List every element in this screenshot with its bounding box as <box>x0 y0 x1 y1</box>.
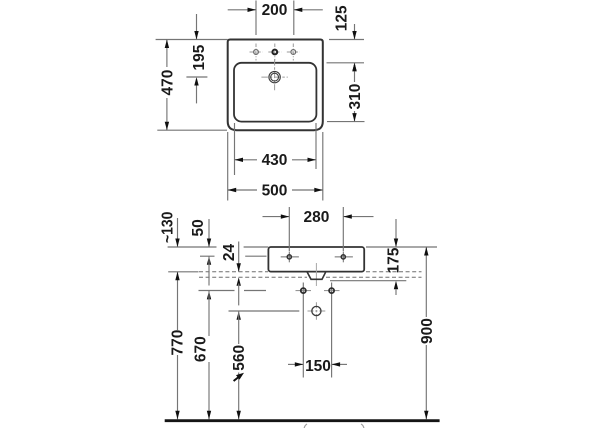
dimension 50 arrow down <box>207 239 211 248</box>
dimension 195 top line <box>196 14 198 40</box>
dimension 175 arrow up <box>394 281 398 290</box>
dimension 470 line upper <box>166 40 168 68</box>
direction arrow (north-east) <box>234 376 241 382</box>
dimension 175 line upper <box>395 219 397 247</box>
dimension 770 line lower <box>177 355 179 419</box>
left faucet hole <box>254 50 259 55</box>
bowl top edge extension line (right) <box>327 62 365 64</box>
dimension 280 arrow left <box>281 214 290 218</box>
washbasin body (front view) <box>268 247 364 272</box>
floor line <box>165 419 440 422</box>
svg-text:900: 900 <box>419 318 436 344</box>
dimension ~130 line <box>177 218 179 247</box>
dimension 900 line lower <box>425 345 427 419</box>
dimension 670 line lower <box>208 362 210 419</box>
dimension 900 line upper <box>425 247 427 317</box>
svg-text:~130: ~130 <box>160 212 177 244</box>
dimension 500 line right <box>292 189 323 191</box>
countertop top dashed line left <box>199 271 268 273</box>
dimension 560 line upper <box>238 284 240 306</box>
dimension 125 arrow down <box>352 31 356 40</box>
center faucet hole <box>272 50 277 55</box>
dimension 500 arrow right <box>314 188 323 192</box>
dimension 280 line right <box>343 216 373 218</box>
svg-text:175: 175 <box>385 247 402 273</box>
dimension 150 line right <box>332 363 347 365</box>
countertop level reference line (left) <box>168 271 198 273</box>
dimension 150 line left <box>288 363 303 365</box>
basin top edge extension line (left) <box>156 39 228 41</box>
dimension 150 extension line right / wall hole right centreline <box>331 283 333 378</box>
dimension 500 arrow left <box>228 188 237 192</box>
wall fixing hole right crosshair <box>324 290 340 292</box>
svg-text:560: 560 <box>231 345 248 371</box>
dimension 430 arrow left <box>235 158 244 162</box>
fixing hole right crosshair (front view) <box>335 252 353 263</box>
dimension 50 arrow up <box>207 256 211 265</box>
right faucet hole crosshair <box>287 44 300 61</box>
fixing hole right (front view) <box>341 255 345 259</box>
dimension 280 extension line left <box>288 207 290 251</box>
countertop bottom dashed line left <box>199 276 307 278</box>
svg-text:430: 430 <box>262 152 288 169</box>
dimension 175 arrow down <box>394 239 398 248</box>
svg-text:195: 195 <box>191 44 208 70</box>
dimension 125 line <box>354 24 356 40</box>
dimension 195 lower line <box>196 86 198 104</box>
dimension 125 arrow up <box>352 63 356 72</box>
drain inner circle (top view) <box>271 73 279 81</box>
dimension ~130 arrow down <box>175 239 179 248</box>
dimension 430 extension line right <box>315 123 317 169</box>
svg-text:670: 670 <box>192 336 209 362</box>
dimension 24 arrow down <box>237 263 241 272</box>
dimension 195 arrow down <box>194 31 198 40</box>
dimension 280 extension line right <box>342 207 344 251</box>
wall fixing hole left crosshair <box>296 290 312 292</box>
dimension 175 lower line <box>395 289 397 295</box>
dimension 150 arrow right <box>332 362 341 366</box>
svg-text:150: 150 <box>305 358 331 375</box>
drain crosshair (top view) <box>261 59 287 90</box>
dimension 430 arrow right <box>308 158 317 162</box>
rim extension line right (front view) <box>366 246 437 248</box>
right faucet hole <box>291 50 296 55</box>
drain centre line through trapezoid <box>315 263 317 286</box>
cropped text fragment left below floor <box>304 424 307 428</box>
dimension 770 arrow up <box>175 272 179 281</box>
drain pipe circle <box>312 306 321 315</box>
wall hole level reference line (left) <box>199 290 235 292</box>
dimension 50 line <box>208 219 210 247</box>
drain pipe level reference line (left) <box>229 310 300 312</box>
dimension 195 arrow up <box>194 77 198 86</box>
drain centre reference tick <box>186 76 207 78</box>
dimension 200 line left <box>228 9 256 11</box>
inner bowl outline (top view) <box>234 63 316 122</box>
dimension 150 arrow left <box>295 362 304 366</box>
wall fixing hole left <box>301 288 306 293</box>
dimension 200 arrow right <box>294 8 303 12</box>
dimension 670 arrow down <box>207 411 211 420</box>
svg-text:24: 24 <box>221 244 238 262</box>
dimension 500 extension line left <box>227 132 229 201</box>
svg-text:770: 770 <box>170 330 187 356</box>
fixing-hole level reference line (left) <box>200 255 215 257</box>
dimension 280 arrow right <box>343 214 352 218</box>
dimension 310 line lower <box>354 111 356 122</box>
dimension 470 arrow down <box>165 122 169 131</box>
dimension 24 line <box>238 242 240 272</box>
dimension 310 arrow down <box>352 113 356 122</box>
dimension 310 arrow up <box>352 63 356 72</box>
cropped text fragment right below floor <box>361 424 364 428</box>
svg-text:470: 470 <box>159 70 176 96</box>
dimension 670 line upper <box>208 256 210 285</box>
dimension 560 line lower <box>238 373 240 420</box>
dimension 770 arrow down <box>175 411 179 420</box>
dimension 200 extension line left <box>255 1 257 36</box>
countertop bottom dashed line right <box>326 276 422 278</box>
bowl bottom edge extension line (right) <box>327 121 365 123</box>
dimension 670 arrow up at wall holes <box>207 291 211 300</box>
center faucet hole crosshair <box>268 44 281 61</box>
dimension 430 extension line left <box>234 123 236 175</box>
dimension 560 arrow down <box>237 411 241 420</box>
svg-text:200: 200 <box>262 2 288 19</box>
drain outer circle (top view) <box>269 71 280 82</box>
dimension 24 arrow up <box>237 277 241 286</box>
dimension 900 arrow up <box>424 247 428 256</box>
dimension 200 extension line right <box>293 1 295 36</box>
dimension 200 arrow left <box>248 8 257 12</box>
dimension 200 line right <box>294 9 323 11</box>
svg-text:125: 125 <box>334 5 351 31</box>
svg-text:280: 280 <box>303 209 329 226</box>
drain pipe crosshair <box>308 302 326 320</box>
dimension 430 line right <box>292 159 316 161</box>
dimension 280 line left <box>263 216 290 218</box>
drain trap (trapezoid) <box>307 272 326 280</box>
left faucet hole crosshair <box>250 44 263 61</box>
svg-text:50: 50 <box>190 219 207 236</box>
svg-text:500: 500 <box>262 182 288 199</box>
dimension 430 line left <box>235 159 258 161</box>
dimension 500 line left <box>228 189 257 191</box>
svg-text:310: 310 <box>347 84 364 110</box>
dimension 900 arrow down <box>424 411 428 420</box>
drain outlet reference line (right) <box>330 280 406 282</box>
dimension 470 arrow up <box>165 40 169 49</box>
dimension 500 extension line right <box>322 132 324 201</box>
basin bottom edge extension line (left) <box>157 129 227 131</box>
dimension 770 line upper <box>177 272 179 330</box>
countertop top dashed line right <box>366 271 422 273</box>
rim extension line left (front view) <box>168 246 217 248</box>
wall fixing hole right <box>329 288 334 293</box>
dimension 150 extension line left / wall hole left centreline <box>302 283 304 378</box>
dimension 310 line upper <box>354 63 356 82</box>
fixing hole left crosshair (front view) <box>281 252 299 263</box>
basin top edge extension line (right) <box>329 39 364 41</box>
dimension 560 arrow up at drain pipe <box>237 311 241 320</box>
fixing hole left (front view) <box>287 255 291 259</box>
washbasin outer outline (top view) <box>228 40 323 131</box>
dimension 470 line lower <box>166 98 168 130</box>
